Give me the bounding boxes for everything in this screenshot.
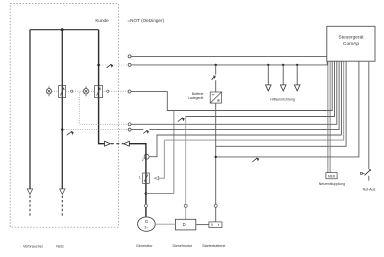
wire L3 mains measure to ComAp <box>131 61 337 124</box>
circuit breaker Q1 (Netz) <box>59 86 66 98</box>
svg-text:Not-Aus: Not-Aus <box>363 188 376 192</box>
junction Netz measure tap <box>61 128 63 130</box>
svg-text:Kunde: Kunde <box>95 18 109 23</box>
dashed plug link <box>111 143 124 145</box>
dashed link meter P2 to breaker Q2 <box>89 90 95 92</box>
svg-text:Verbraucher: Verbraucher <box>23 244 44 248</box>
svg-text:MER: MER <box>328 174 336 178</box>
svg-text:Netzentkupplung: Netzentkupplung <box>319 182 345 186</box>
node link circle a <box>71 90 73 92</box>
contact k1 on L4 <box>143 130 147 133</box>
wire generator voltage sense riser <box>173 111 175 194</box>
svg-text:Netz: Netz <box>56 244 64 248</box>
svg-text:Steuergerät: Steuergerät <box>338 35 364 41</box>
svg-text:=NOT (Oetzinger): =NOT (Oetzinger) <box>128 18 165 23</box>
wire Verbraucher dashed continuation <box>29 196 31 217</box>
Kunde dashed boundary box <box>10 4 118 228</box>
stem Hilfseinrichtung 3 <box>296 65 298 85</box>
svg-text:ComAp: ComAp <box>343 41 359 47</box>
svg-text:3~: 3~ <box>144 226 149 230</box>
terminal circle X5 (mains feedback) <box>128 128 131 131</box>
stem Hilfseinrichtung 1 <box>267 65 269 85</box>
junction busbar/Netz <box>61 28 64 31</box>
fuse F1 <box>143 173 150 183</box>
terminal circle X1 (line to ComAp left) <box>128 55 131 58</box>
dotted Netz measure line <box>64 129 128 131</box>
wire MER line 2 <box>329 61 331 172</box>
battery charger rectifier U2 <box>210 92 221 103</box>
dotted tap from breaker link down to mains-measure line <box>79 92 128 124</box>
wire L1 breaker measure to ComAp <box>131 61 332 110</box>
svg-text:Hilfseinrichtung: Hilfseinrichtung <box>270 98 295 102</box>
junction Kunde feeder tap <box>97 64 100 67</box>
circuit breaker Q2 (generator feeder) <box>95 86 103 98</box>
svg-text:G: G <box>145 219 149 224</box>
arrow Netz <box>60 189 65 194</box>
engine D1 Dieselmotor <box>176 219 196 230</box>
junction charger/k1 line <box>215 156 217 158</box>
plug connector arrow left <box>124 141 130 146</box>
terminal circle X2 (aux supply line) <box>128 63 131 66</box>
switch glyph Kunde aux <box>107 64 112 68</box>
svg-text:Dieselmotor: Dieselmotor <box>172 244 192 248</box>
junction aux/Hilfseinrichtung tap 1 <box>267 64 269 66</box>
arrow Hilfseinrichtung 1 <box>266 85 272 91</box>
wire X1 to ComAp <box>131 55 327 57</box>
node link circle b <box>107 90 109 92</box>
terminal circle generator line <box>144 204 147 207</box>
wire generator feeder thick <box>129 144 146 217</box>
wire L2 engine start to ComAp <box>186 61 335 116</box>
switch glyph charger line <box>212 76 216 80</box>
arrow Hilfseinrichtung 3 <box>294 85 300 91</box>
generator G1 <box>138 217 156 231</box>
dashed link breaker Q2 to terminal <box>102 90 128 92</box>
dotted Kunde aux tap with switch <box>100 64 128 66</box>
wire L4 mains feedback to ComAp <box>131 61 339 129</box>
wire generator sense horizontal <box>146 192 174 194</box>
svg-text:D: D <box>183 222 186 227</box>
svg-text:2: 2 <box>142 158 144 162</box>
terminal circle X4 (mains measure) <box>128 123 131 126</box>
controller U1 Steuergeraet ComAp <box>327 26 375 61</box>
terminal circle engine start <box>184 204 187 207</box>
arrow Hilfseinrichtung 2 <box>280 85 286 91</box>
svg-text:1: 1 <box>139 175 141 179</box>
junction aux/Hilfseinrichtung tap 3 <box>296 64 298 66</box>
switch Not-Aus <box>365 169 371 175</box>
wire charger drop upper <box>215 65 217 92</box>
wire L7 to ComAp <box>216 61 346 146</box>
arrow to fuse F1 <box>154 176 158 180</box>
wire Verbraucher feeder <box>29 30 31 189</box>
terminal circle generator sense <box>144 154 149 159</box>
svg-text:Starterbatterie: Starterbatterie <box>202 244 225 248</box>
wire aux supply line to ComAp bottom <box>131 61 327 65</box>
wire Kunde generator feeder <box>99 30 105 144</box>
wire engine start drop to Dieselmotor <box>185 117 187 220</box>
arrow Verbraucher <box>27 189 32 194</box>
wire MER line 1 <box>327 61 329 172</box>
dashed link breaker Q1 to meter P2 <box>66 90 84 92</box>
meter P1 (kWh meter, Netz) <box>46 86 51 96</box>
battery G2 Starterbatterie <box>209 222 222 228</box>
stem Hilfseinrichtung 2 <box>282 65 284 85</box>
terminal circle X3 (gen-breaker measure) <box>128 90 131 93</box>
dashed mechanical link meter P1 to breaker Q1 <box>52 90 59 92</box>
wire charger to battery <box>215 103 217 222</box>
svg-text:Ladegerät: Ladegerät <box>188 96 203 100</box>
contact k1 on k1 line <box>252 158 257 162</box>
terminal circle battery line <box>214 204 217 207</box>
wire Netz feeder <box>61 30 63 189</box>
meter P2 (kWh meter, generator feeder) <box>83 86 88 96</box>
junction aux/Hilfseinrichtung tap 2 <box>282 64 284 66</box>
wire Netz dashed continuation <box>61 196 63 217</box>
svg-text:Generator: Generator <box>136 244 153 248</box>
wire k1 battery line to ComAp <box>216 61 359 157</box>
plug connector arrow right <box>105 141 111 146</box>
contact k1 on L2 <box>178 118 183 122</box>
junction generator sense <box>145 192 148 195</box>
busbar Kunde <box>30 29 99 31</box>
wire Not-Aus drop <box>368 62 370 181</box>
relay MER Netzentkupplung <box>326 173 337 179</box>
coupling engine to battery link <box>196 224 209 226</box>
charger tap junction <box>215 64 217 66</box>
coupling generator to engine <box>155 223 175 225</box>
wire L5 generator sense to ComAp <box>149 61 341 156</box>
wire L6 start signal with arrow to F1 <box>158 61 344 178</box>
contact k1 glyph on Netz tap <box>67 131 72 135</box>
